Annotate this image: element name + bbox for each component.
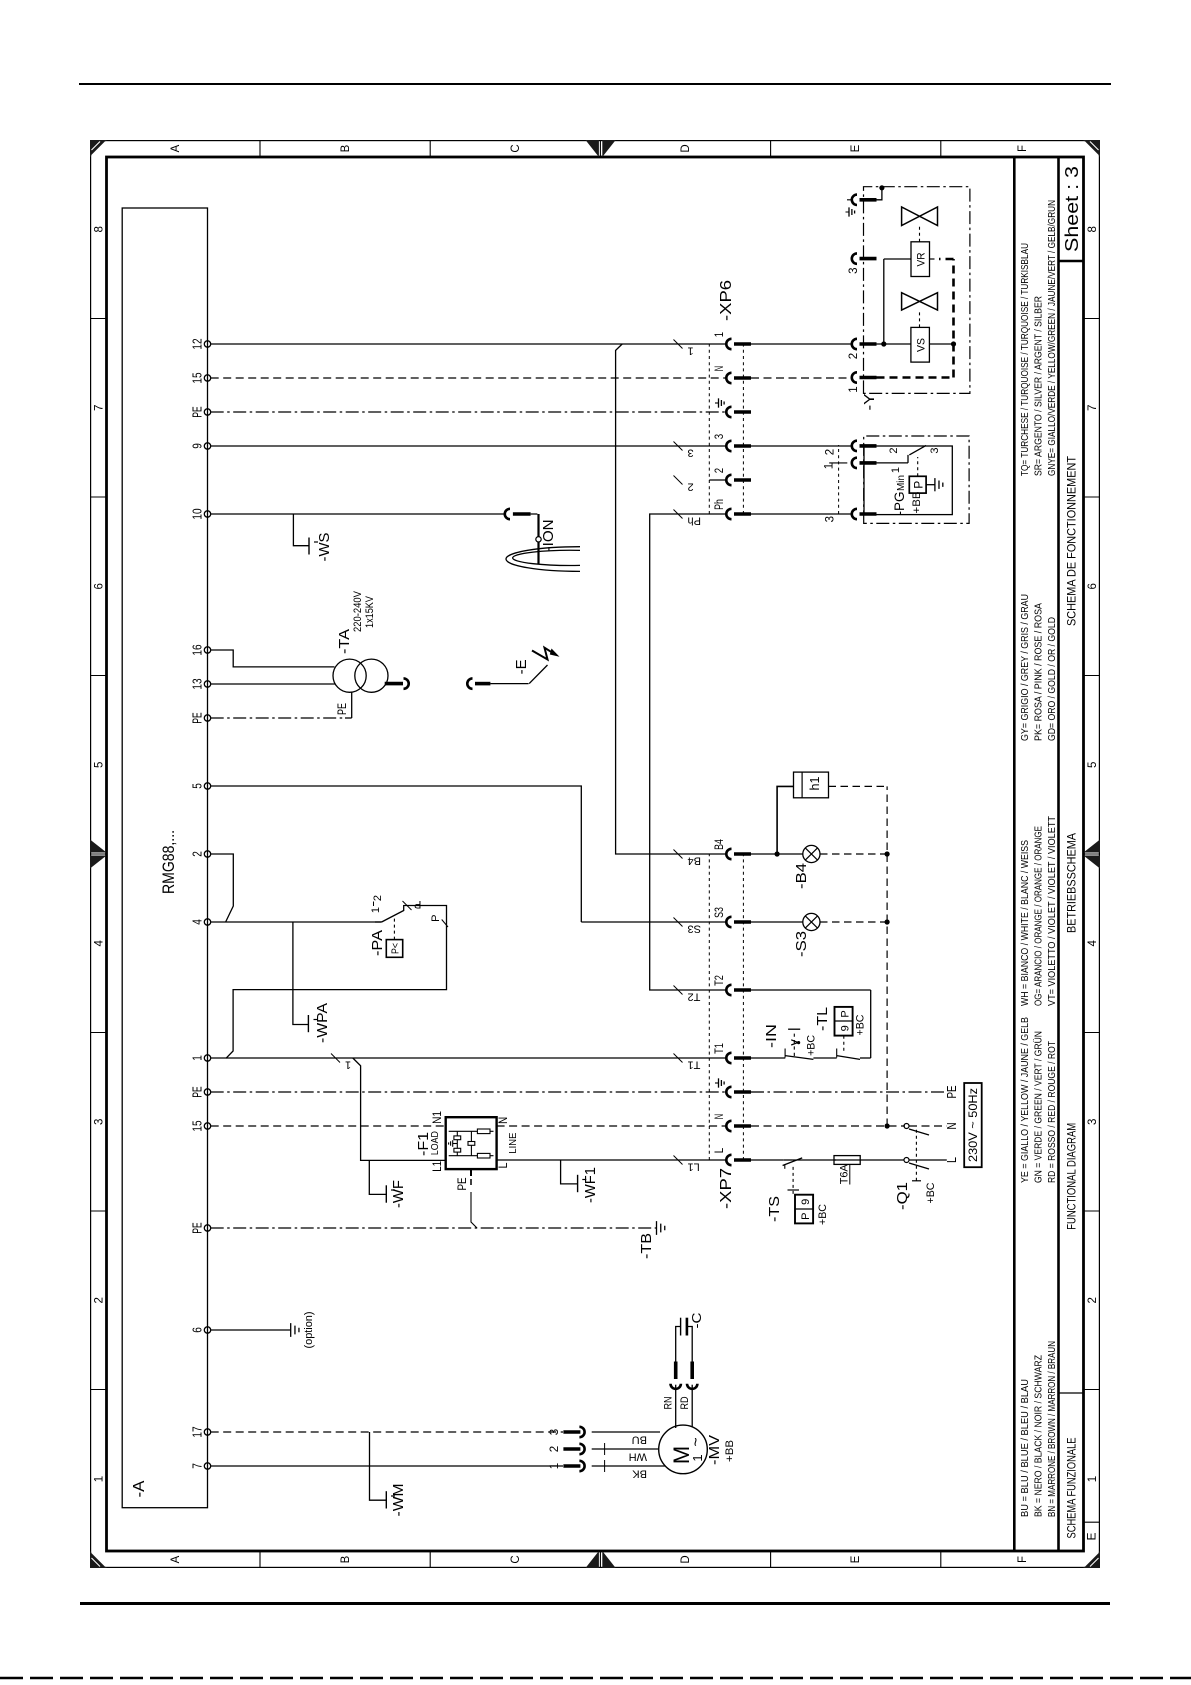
svg-text:-XP6: -XP6 <box>718 280 735 321</box>
terminal 7 of -A at x=102 <box>204 1463 210 1469</box>
svg-text:+BC: +BC <box>806 1035 818 1056</box>
frame centre marker top <box>90 856 107 869</box>
VR to heavy dash stub <box>930 258 938 260</box>
wire branch 1 to F1 L1 feed <box>353 1058 445 1160</box>
svg-text:3: 3 <box>825 516 837 522</box>
terminal 13 of -A at x=884 <box>204 681 210 687</box>
svg-text:1: 1 <box>1087 1476 1099 1482</box>
svg-text:A: A <box>170 144 182 152</box>
terminal PE of -A at x=340 <box>204 1225 210 1231</box>
earth tab -WPA <box>293 922 309 1025</box>
svg-text:3: 3 <box>549 1429 561 1435</box>
capacitor -C <box>676 1327 681 1362</box>
ION connector on wire 10 <box>505 509 510 519</box>
svg-text:D: D <box>680 1555 692 1563</box>
svg-text:-WPA: -WPA <box>314 1003 331 1043</box>
svg-text:GNYE= GIALLO/VERDE / YELLOW/GR: GNYE= GIALLO/VERDE / YELLOW/GREEN / JAUN… <box>1046 200 1058 476</box>
svg-text:-IN: -IN <box>763 1024 780 1048</box>
svg-text:1: 1 <box>370 907 382 913</box>
svg-text:PK= ROSA / PINK / ROSE / ROSA: PK= ROSA / PINK / ROSE / ROSA <box>1033 603 1045 741</box>
wire XP6-Ph/T2 column to PG pin 3 <box>751 513 853 515</box>
terminal PE of -A at x=1156 <box>204 409 210 415</box>
Y internal: junction dots and VS feed <box>877 343 911 345</box>
svg-text:-Q1: -Q1 <box>894 1182 911 1210</box>
transformer -TA circles <box>333 659 366 692</box>
wire 16 (x=918) -A jog to transformer <box>211 650 335 667</box>
HV connector E side <box>467 678 472 688</box>
solenoid VS <box>911 327 930 362</box>
wire PE (x=1156) dash-dot -A to XP6 earth <box>211 411 727 413</box>
slash label P on PA output <box>403 901 412 910</box>
wire T2 below XP7 <box>751 989 871 991</box>
title block sheet box <box>1059 260 1084 263</box>
svg-text:-A: -A <box>131 1480 148 1497</box>
hour counter h1 <box>794 772 829 798</box>
junction dot rail at B4 lamp <box>885 851 890 856</box>
svg-text:T2: T2 <box>714 975 726 986</box>
Y earth glyph <box>848 207 850 216</box>
terminal 6 of -A at x=238 <box>204 1327 210 1333</box>
svg-text:-PG: -PG <box>891 492 907 516</box>
connector XP7 pin S3 <box>726 917 731 927</box>
svg-text:T2: T2 <box>688 991 701 1003</box>
dashed link PA sensor to arm <box>393 917 395 940</box>
wire label T2 <box>674 986 683 995</box>
lamp -B4 <box>751 853 803 855</box>
svg-text:PE: PE <box>335 703 349 715</box>
svg-text:3: 3 <box>929 447 941 453</box>
connector -XP6 boundary dashed lines <box>708 344 710 514</box>
wire label 2 at XP6 pin 2 <box>674 476 683 485</box>
svg-text:E: E <box>850 1555 862 1563</box>
svg-text:PE: PE <box>191 406 205 417</box>
connector XP7 pin N <box>726 1121 731 1131</box>
wire 2 (x=714) -A jog joining wire 4 <box>211 854 234 922</box>
svg-text:P: P <box>430 915 442 922</box>
terminal 2 of -A at x=714 <box>204 851 210 857</box>
motor connector pin 1 <box>563 1464 580 1468</box>
title block legend strip line <box>1013 157 1016 1551</box>
svg-text:A: A <box>170 1555 182 1563</box>
frame corner triangle bottom-left <box>1083 1551 1100 1568</box>
svg-text:-TL: -TL <box>814 1007 831 1031</box>
F1 inner rails <box>449 1155 494 1157</box>
svg-text:E: E <box>850 144 862 152</box>
wire PA output loop to pin 1 <box>226 906 447 1059</box>
svg-text:Ph: Ph <box>688 515 701 527</box>
svg-text:~: ~ <box>688 1437 705 1446</box>
svg-text:230V ~ 50Hz: 230V ~ 50Hz <box>966 1088 980 1162</box>
svg-text:N: N <box>714 366 726 371</box>
lamp -S3 <box>751 921 803 923</box>
svg-text:1x15KV: 1x15KV <box>364 595 376 628</box>
svg-text:1: 1 <box>690 1454 705 1461</box>
terminal PE of -A at x=476 <box>204 1089 210 1095</box>
TS thermostat box <box>795 1195 813 1224</box>
wire XP6-3 to Y pin 3 column <box>751 445 854 447</box>
svg-text:220-240V: 220-240V <box>352 590 364 632</box>
dashed link TL box to switch <box>843 1036 845 1051</box>
svg-text:-XP7: -XP7 <box>718 1168 735 1209</box>
svg-text:1: 1 <box>824 463 836 469</box>
svg-text:P<: P< <box>391 943 402 954</box>
wire 15 (x=1190) dashed -A to XP6 N <box>211 377 727 379</box>
Y pin earth <box>847 199 852 201</box>
svg-text:h1: h1 <box>807 777 822 791</box>
wire 9 (x=1122) -A to XP6 pin 3 <box>211 445 727 447</box>
svg-text:8: 8 <box>1087 226 1099 232</box>
capacitor connector RN <box>675 1384 677 1386</box>
wire 5 (x=782) -A down then left to S3 column <box>211 786 582 922</box>
PG pin 1 <box>852 458 857 468</box>
svg-text:1: 1 <box>890 467 902 473</box>
svg-text:P: P <box>912 481 926 489</box>
svg-text:BK = NERO / BLACK / NOIR / SCH: BK = NERO / BLACK / NOIR / SCHWARZ <box>1033 1355 1045 1517</box>
svg-text:+BB: +BB <box>911 492 923 514</box>
Y heavy dashed return <box>877 376 954 379</box>
svg-text:N: N <box>498 1117 510 1124</box>
svg-text:1: 1 <box>848 386 860 392</box>
svg-text:OG= ARANCIO / ORANGE / ORANGE: OG= ARANCIO / ORANGE / ORANGE / ORANGE <box>1033 826 1045 1006</box>
svg-text:+BB: +BB <box>724 1440 736 1462</box>
wire PE (x=850) dash-dot -A to transformer PE <box>211 717 345 719</box>
wire 17 (x=136) dashed -A to motor connector pin 3 <box>211 1431 563 1433</box>
svg-text:-WS: -WS <box>316 533 333 562</box>
svg-text:GY= GRIGIO / GREY / GRIS / GRA: GY= GRIGIO / GREY / GRIS / GRAU <box>1019 594 1031 741</box>
svg-text:-WF: -WF <box>390 1180 407 1208</box>
svg-text:2: 2 <box>848 353 860 359</box>
svg-text:Min: Min <box>896 475 907 491</box>
svg-text:FUNCTIONAL DIAGRAM: FUNCTIONAL DIAGRAM <box>1065 1123 1079 1230</box>
Y pin 3 <box>852 253 857 263</box>
earth tab -WF1 <box>561 1160 578 1184</box>
svg-text:SCHEMA FUNZIONALE: SCHEMA FUNZIONALE <box>1065 1438 1079 1539</box>
svg-text:RD = ROSSO / RED / ROUGE / ROT: RD = ROSSO / RED / ROUGE / ROT <box>1046 1041 1058 1183</box>
thermostat switch -IN <box>785 1056 813 1060</box>
wire 13 (x=884) -A to transformer <box>211 683 336 685</box>
frame centre marker left <box>586 1551 599 1568</box>
ticks on WH and BK wires <box>604 1443 606 1455</box>
wire 10 (x=1054) -A to ION connector <box>211 513 505 515</box>
svg-text:+BC: +BC <box>855 1014 867 1035</box>
svg-text:-TA: -TA <box>336 629 353 654</box>
svg-text:16: 16 <box>191 644 205 655</box>
stub wire XP6 pin 2 <box>709 479 726 481</box>
wire branch 12 to XP7 B4 <box>616 344 727 854</box>
svg-text:TQ= TURCHESE / TURQUOISE / TUR: TQ= TURCHESE / TURQUOISE / TURQUOISE / T… <box>1019 243 1031 476</box>
svg-text:1: 1 <box>191 1055 205 1061</box>
svg-text:RD: RD <box>679 1396 691 1409</box>
svg-text:VS: VS <box>916 338 928 352</box>
valve VR bowtie <box>902 207 938 226</box>
svg-text:2: 2 <box>94 1297 106 1303</box>
PG pin1 stub tick <box>829 462 847 464</box>
wire TA secondary with HV connector <box>386 683 388 685</box>
svg-text:B: B <box>340 1555 352 1563</box>
connector XP7 pin L <box>726 1155 731 1165</box>
svg-text:T1: T1 <box>688 1059 701 1071</box>
svg-text:15: 15 <box>191 1120 205 1131</box>
wire label L1 <box>674 1156 683 1165</box>
svg-text:Ph: Ph <box>714 499 726 510</box>
svg-text:BU = BLU / BLUE / BLEU / BLAU: BU = BLU / BLUE / BLEU / BLAU <box>1019 1379 1031 1517</box>
IN sensor dashes and v-mark <box>793 1031 795 1056</box>
svg-text:6: 6 <box>191 1327 205 1333</box>
svg-text:PE: PE <box>457 1177 469 1190</box>
connector XP7 pin T2 <box>726 985 731 995</box>
svg-text:N: N <box>714 1114 726 1119</box>
frame corner triangle top-left <box>90 1551 107 1568</box>
svg-text:8: 8 <box>94 226 106 232</box>
connector XP7 pin ⏚ <box>726 1087 731 1097</box>
svg-text:5: 5 <box>1087 762 1099 768</box>
svg-text:-E: -E <box>513 659 530 674</box>
motor connector pin 2 <box>563 1447 580 1451</box>
connector XP6 pin N <box>726 373 731 383</box>
svg-text:-S3: -S3 <box>793 931 810 957</box>
wire S3 column down to XP7 <box>581 921 726 923</box>
valve VS bowtie <box>902 293 938 310</box>
connector XP7 pin T1 <box>726 1053 731 1063</box>
switch -Q1 L pole contact <box>904 1158 909 1163</box>
sensor box P< of -PA <box>386 940 402 958</box>
wire XP6-N dashed down to Y pin 1 <box>751 377 853 379</box>
frame centre marker bottom <box>1084 856 1101 869</box>
terminal 9 of -A at x=1122 <box>204 443 210 449</box>
terminal 10 of -A at x=1054 <box>204 511 210 517</box>
svg-text:9: 9 <box>191 443 205 449</box>
svg-text:15: 15 <box>191 372 205 383</box>
wire XP6-3 down to PG pin 2 <box>751 445 853 447</box>
earth -TB <box>656 1221 658 1235</box>
earth tab -WM <box>370 1432 387 1500</box>
svg-text:GN = VERDE / GREEN / VERT / GR: GN = VERDE / GREEN / VERT / GRÜN <box>1033 1031 1045 1183</box>
PG connector boundary fine dashed <box>838 445 840 514</box>
svg-text:6: 6 <box>94 583 106 589</box>
svg-text:3: 3 <box>688 447 694 459</box>
TS dashed link to box <box>792 1166 794 1194</box>
wire 12 (x=1224) -A to XP6 pin 1 <box>211 343 727 345</box>
frame centre marker right <box>586 140 599 157</box>
bottom horizontal rule <box>80 1602 1110 1605</box>
svg-text:L: L <box>714 1147 726 1153</box>
junction dot rail at N wire <box>885 1123 890 1128</box>
svg-text:YE = GIALLO / YELLOW / JAUNE /: YE = GIALLO / YELLOW / JAUNE / GELB <box>1019 1017 1031 1183</box>
svg-text:9: 9 <box>840 1025 852 1031</box>
wire label Ph <box>674 510 683 519</box>
svg-text:BU: BU <box>632 1434 647 1446</box>
junction dot h1 branch on B4 wire <box>775 851 780 856</box>
svg-text:12: 12 <box>191 338 205 349</box>
connector -XP7 boundary dashed lines <box>708 854 710 1160</box>
PG switch common riser <box>871 462 908 464</box>
F1 internal earth <box>453 1143 458 1145</box>
dashed indicator rail <box>829 785 888 787</box>
svg-text:S3: S3 <box>714 907 726 918</box>
motor wires to M <box>592 1431 660 1433</box>
svg-text:L1: L1 <box>432 1161 444 1172</box>
terminal PE of -A at x=850 <box>204 715 210 721</box>
svg-text:10: 10 <box>191 508 205 519</box>
Y earth internal wire to box edge <box>877 188 882 200</box>
svg-text:L1: L1 <box>688 1161 700 1173</box>
wire PE below XP7 dash-dot to PE label <box>751 1091 947 1093</box>
svg-text:7: 7 <box>94 405 106 411</box>
svg-text:-WM: -WM <box>390 1484 407 1517</box>
svg-text:-MV: -MV <box>706 1435 723 1465</box>
svg-text:BK: BK <box>632 1468 647 1480</box>
F1 PE stub to PE wire <box>470 1169 472 1176</box>
Q1 dashed mechanical link <box>915 1130 917 1181</box>
wire label 1 on wire 12 <box>674 340 683 349</box>
wire 6 (x=238) -A to option earth <box>211 1329 291 1331</box>
wire 4 (x=646) -A to PA switch <box>211 921 382 923</box>
frame corner triangle top-right <box>90 140 107 157</box>
wire label 3 on wire 9 <box>674 442 683 451</box>
wire 7 (x=102) -A to motor connector pin 1 <box>211 1465 563 1467</box>
svg-text:Sheet : 3: Sheet : 3 <box>1061 166 1082 252</box>
connector XP6 pin Ph <box>726 509 731 519</box>
wire PE (x=340) dash-dot -A to TB earth <box>211 1227 656 1229</box>
revision cell divider in zone strip <box>1084 1521 1101 1523</box>
wire to spark electrode -E diagonal <box>529 665 547 684</box>
wire label 1 on wire 1 near -A <box>331 1054 340 1063</box>
terminal 5 of -A at x=782 <box>204 783 210 789</box>
svg-text:1: 1 <box>345 1059 351 1071</box>
motor connector pin 3 <box>563 1430 580 1434</box>
motor wires RN RD to capacitor <box>675 1385 677 1428</box>
F1 inductors <box>477 1129 490 1134</box>
svg-text:2: 2 <box>688 481 694 493</box>
connector XP6 pin 3 <box>726 441 731 451</box>
svg-text:PE: PE <box>191 1222 205 1233</box>
svg-text:WH = BIANCO / WHITE / BLANC /: WH = BIANCO / WHITE / BLANC / WEISS <box>1019 840 1031 1006</box>
dashed link VR coil to bowtie <box>919 226 921 242</box>
svg-text:SCHEMA DE FONCTIONNEMENT: SCHEMA DE FONCTIONNEMENT <box>1065 455 1079 626</box>
svg-text:-ION: -ION <box>540 519 557 551</box>
svg-text:3: 3 <box>94 1119 106 1125</box>
svg-text:13: 13 <box>191 678 205 689</box>
wire PE (x=476) dash-dot -A to XP7 earth <box>211 1091 727 1093</box>
TL thermostat box <box>835 1007 853 1036</box>
svg-text:5: 5 <box>94 762 106 768</box>
svg-text:BN = MARRONE / BROWN / MARRON: BN = MARRONE / BROWN / MARRON / BRAUN <box>1046 1341 1058 1517</box>
transformer -TA PE link <box>351 692 353 718</box>
wire lamp S3 to rail dashed <box>820 921 887 923</box>
svg-text:B4: B4 <box>714 839 726 850</box>
svg-text:WH: WH <box>629 1451 647 1463</box>
slash label P on PA loop <box>442 920 448 928</box>
svg-text:2: 2 <box>372 895 384 901</box>
svg-text:F: F <box>1017 145 1029 152</box>
svg-text:SR= ARGENTO / SILVER / ARGENT: SR= ARGENTO / SILVER / ARGENT / SILBER <box>1033 296 1045 476</box>
svg-text:B: B <box>340 144 352 152</box>
wire label T1 <box>674 1054 683 1063</box>
svg-text:+BC: +BC <box>925 1182 937 1203</box>
svg-text:RMG88,...: RMG88,... <box>159 830 178 894</box>
svg-text:3: 3 <box>1087 1119 1099 1125</box>
F1 link with caps <box>456 1131 458 1155</box>
spark electrode -E lightning bolt <box>532 648 555 660</box>
svg-text:2: 2 <box>714 468 726 473</box>
EMC filter -F1 box <box>446 1117 497 1169</box>
svg-text:N: N <box>945 1123 959 1130</box>
svg-text:VR: VR <box>916 252 928 266</box>
Y pin 2 <box>852 339 857 349</box>
solenoid VR <box>911 242 930 277</box>
svg-text:PE: PE <box>945 1086 959 1099</box>
svg-text:2: 2 <box>1087 1297 1099 1303</box>
svg-text:2: 2 <box>549 1446 561 1452</box>
pressure switch -PA contact <box>375 921 382 923</box>
svg-text:2: 2 <box>825 449 837 455</box>
switch -Q1 N pole <box>904 1124 909 1129</box>
wire S3 below XP7 to lamp <box>751 921 803 923</box>
svg-text:-PA: -PA <box>369 930 386 956</box>
svg-text:P: P <box>840 1010 852 1017</box>
svg-text:(option): (option) <box>303 1312 315 1349</box>
svg-text:4: 4 <box>1087 940 1099 947</box>
wire label B4 <box>674 850 683 859</box>
svg-text:1: 1 <box>94 1476 106 1482</box>
wire B4 junction to h1 <box>777 786 793 854</box>
svg-text:-F1: -F1 <box>415 1132 432 1156</box>
svg-text:3: 3 <box>714 434 726 439</box>
svg-text:5: 5 <box>191 783 205 789</box>
terminal 15 of -A at x=1190 <box>204 375 210 381</box>
svg-text:-TB: -TB <box>638 1233 655 1259</box>
switch -Q1 L pole <box>784 1159 792 1161</box>
svg-text:1: 1 <box>688 345 694 357</box>
Y pin 1 <box>852 372 857 382</box>
svg-text:-C: -C <box>689 1313 704 1329</box>
connector XP6 pin 2 <box>726 475 731 485</box>
controller box -A <box>122 208 207 1508</box>
fuse T6A <box>834 1159 860 1161</box>
VR feed wire <box>883 259 885 344</box>
capacitor connector RD <box>687 1384 697 1389</box>
svg-text:GD= ORO / GOLD / OR / GOLD: GD= ORO / GOLD / OR / GOLD <box>1046 617 1058 741</box>
frame outer border <box>91 141 1100 1568</box>
svg-text:-B4: -B4 <box>793 863 810 889</box>
wire label S3 <box>674 918 683 927</box>
PG switch arm <box>909 445 926 455</box>
svg-text:N1: N1 <box>432 1111 444 1124</box>
PG device body <box>864 446 952 515</box>
wire L below XP7 to TS switch <box>751 1159 784 1161</box>
wire XP6-1 down to Y pin 2 <box>751 343 853 345</box>
svg-text:4: 4 <box>94 940 106 947</box>
title block title strip line <box>1057 157 1060 1551</box>
wire Ph/T2 link XP6-Ph to XP7-T2 <box>650 514 727 990</box>
F1 middle link with cap <box>470 1131 472 1155</box>
wire VS to heavy dash junction <box>929 343 953 345</box>
svg-text:2: 2 <box>191 851 205 857</box>
pressure switch -PG dash-dot box <box>864 436 969 523</box>
svg-text:2: 2 <box>888 447 900 453</box>
wires F1 outputs <box>497 1125 727 1127</box>
svg-text:E: E <box>1085 1532 1099 1540</box>
svg-text:1: 1 <box>549 1463 561 1469</box>
svg-text:6: 6 <box>1087 583 1099 589</box>
wire T1 below XP7 <box>751 1057 785 1059</box>
title block cell divider <box>1059 1392 1084 1394</box>
PG earth <box>926 484 935 486</box>
svg-text:+BC: +BC <box>817 1204 829 1225</box>
svg-text:-TS: -TS <box>766 1196 783 1222</box>
svg-text:BETRIEBSSCHEMA: BETRIEBSSCHEMA <box>1065 833 1079 933</box>
frame zone strip dividers top/bottom <box>90 1389 107 1391</box>
